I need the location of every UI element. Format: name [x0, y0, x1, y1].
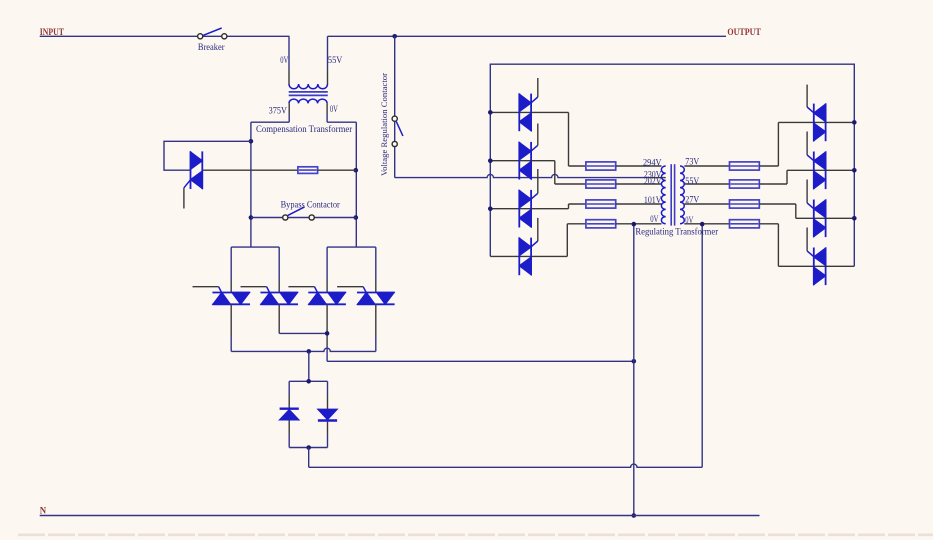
svg-text:101V: 101V: [644, 195, 662, 206]
svg-text:73V: 73V: [685, 157, 699, 168]
svg-text:0V: 0V: [280, 55, 288, 66]
svg-text:Regulating Transformer: Regulating Transformer: [635, 227, 718, 237]
svg-text:OUTPUT: OUTPUT: [727, 28, 761, 38]
svg-text:294V: 294V: [643, 157, 662, 168]
svg-text:27V: 27V: [685, 195, 699, 206]
svg-text:375V: 375V: [269, 106, 287, 117]
svg-text:Bypass Contactor: Bypass Contactor: [281, 200, 340, 210]
svg-text:Breaker: Breaker: [198, 42, 225, 52]
svg-text:0V: 0V: [685, 215, 693, 226]
svg-text:INPUT: INPUT: [40, 28, 65, 38]
svg-text:Voltage Regulation Contactor: Voltage Regulation Contactor: [379, 73, 389, 176]
svg-text:55V: 55V: [328, 55, 342, 66]
svg-text:N: N: [40, 507, 47, 517]
svg-text:0V: 0V: [330, 104, 338, 115]
svg-text:55V: 55V: [685, 176, 699, 187]
svg-text:0V: 0V: [650, 214, 658, 225]
svg-text:202V: 202V: [644, 176, 662, 187]
svg-text:Compensation Transformer: Compensation Transformer: [256, 124, 352, 134]
